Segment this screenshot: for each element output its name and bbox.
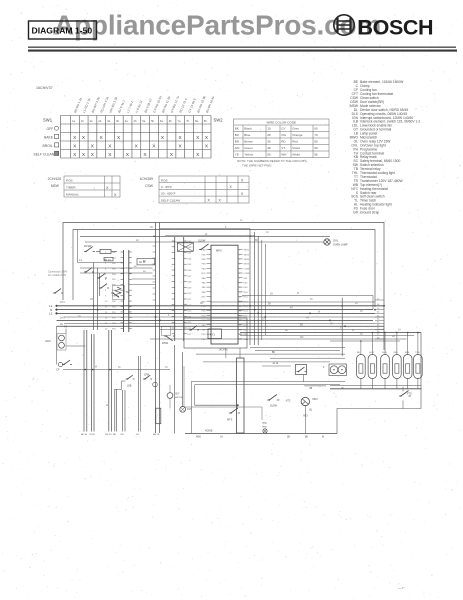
svg-text:4A: 4A — [290, 307, 293, 310]
wire DLM to elements — [66, 345, 85, 347]
svg-text:NOTE: THE NUMBERS REFER TO THE: NOTE: THE NUMBERS REFER TO THE CIRCUITS, — [237, 159, 307, 163]
svg-text:Blue: Blue — [244, 133, 250, 137]
svg-text:9: 9 — [239, 287, 240, 289]
svg-text:2B: 2B — [392, 336, 395, 338]
svg-text:AppliancePartsPros.com: AppliancePartsPros.com — [54, 10, 381, 41]
svg-text:12: 12 — [239, 301, 241, 303]
right border pin ticks — [375, 300, 384, 339]
svg-text:DLSW: DLSW — [84, 244, 92, 248]
svg-text:MPU: MPU — [216, 249, 222, 253]
svg-text:10: 10 — [239, 292, 241, 294]
svg-text:2: 2 — [239, 254, 240, 256]
svg-text:W06: W06 — [196, 437, 201, 439]
svg-text:BAKE: BAKE — [44, 136, 54, 140]
bus mid-right extra 2 — [255, 350, 340, 352]
wire bus row 11 — [150, 338, 407, 340]
svg-text:BK 10: BK 10 — [104, 259, 111, 262]
power terminal L2 and bus — [55, 312, 57, 314]
bake element BE — [91, 334, 93, 432]
svg-text:BU: BU — [235, 133, 239, 137]
svg-text:POS: POS — [66, 179, 73, 183]
svg-text:White: White — [292, 153, 300, 157]
svg-text:70: 70 — [314, 133, 318, 137]
svg-text:NOISE: NOISE — [205, 430, 213, 433]
elements bottom bus — [330, 384, 421, 386]
svg-text:SELF CLEAN: SELF CLEAN — [161, 198, 180, 202]
svg-text:WIRE COLOR CODE: WIRE COLOR CODE — [266, 121, 296, 125]
door lock switch DLSW2 — [267, 399, 269, 401]
svg-text:BK: BK — [268, 304, 272, 306]
wire bus row 10 — [240, 334, 414, 336]
selector contact SW1b — [97, 277, 99, 279]
svg-text:Yellow: Yellow — [244, 153, 254, 157]
svg-text:BU: BU — [360, 333, 364, 335]
element labels — [357, 352, 420, 354]
svg-text:SELF CLEAN: SELF CLEAN — [34, 153, 55, 157]
wire color code table — [234, 119, 330, 158]
bus BK upper — [196, 353, 345, 355]
wire horizontal link A — [80, 267, 153, 269]
selector switch table SW1 — [61, 116, 212, 159]
wire vertical bus right of U1 d — [261, 240, 263, 340]
svg-text:2A: 2A — [262, 317, 265, 320]
wire right vertical x373 — [372, 296, 374, 310]
svg-text:BK: BK — [272, 352, 276, 354]
svg-text:(4CPU): (4CPU) — [219, 348, 228, 352]
display driver column U3 — [174, 237, 176, 341]
latch drive LDB — [115, 389, 122, 391]
fuse F1 — [100, 250, 111, 254]
wire mid vertical 4 — [194, 385, 196, 406]
bus box top extension — [262, 365, 291, 367]
svg-text:OVL: OVL — [333, 239, 339, 243]
rotated column headers — [73, 95, 215, 113]
svg-text:OSC: OSC — [201, 297, 206, 299]
svg-text:13: 13 — [239, 306, 241, 308]
filter block FB — [137, 259, 155, 265]
svg-text:RD: RD — [113, 434, 117, 436]
wire feed bus — [78, 262, 124, 264]
svg-text:2A: 2A — [136, 239, 139, 242]
svg-text:11: 11 — [239, 297, 241, 299]
svg-text:THE WIRE NET-PWG: THE WIRE NET-PWG — [242, 164, 272, 168]
U1 left pins — [207, 250, 212, 339]
svg-text:Red: Red — [292, 140, 298, 144]
svg-text:60: 60 — [314, 127, 318, 131]
surface element E5 — [403, 355, 412, 379]
surface element E6 — [414, 355, 423, 379]
svg-text:2B: 2B — [287, 437, 290, 439]
svg-text:18: 18 — [239, 330, 241, 332]
svg-text:GY: GY — [330, 324, 334, 326]
X contact marks — [73, 135, 209, 158]
svg-text:4: 4 — [239, 264, 240, 266]
svg-text:1B: 1B — [150, 227, 153, 229]
mid box outline — [184, 366, 262, 420]
svg-text:FTS: FTS — [407, 393, 412, 396]
element 4 short — [114, 389, 116, 432]
wire bus above U1 second — [165, 235, 255, 237]
svg-text:16CH/V37: 16CH/V37 — [36, 86, 53, 90]
svg-text:Black: Black — [244, 127, 252, 131]
svg-text:NTC: NTC — [286, 400, 291, 402]
svg-text:6: 6 — [239, 273, 240, 275]
microcontroller U1 — [211, 245, 238, 344]
svg-text:SW1: SW1 — [43, 118, 53, 123]
svg-text:2B: 2B — [309, 388, 312, 390]
Bosch logo symbol — [334, 15, 354, 35]
svg-text:95: 95 — [314, 153, 318, 157]
relay RY1 contact — [189, 329, 191, 331]
keyboard switch KEY — [167, 393, 173, 399]
svg-text:BK: BK — [255, 240, 259, 242]
wire bus row 4 — [64, 316, 384, 318]
right border vertical — [420, 333, 422, 388]
svg-text:PE: PE — [60, 324, 64, 326]
svg-text:BROIL: BROIL — [43, 144, 53, 148]
svg-text:VDD: VDD — [201, 273, 206, 275]
svg-text:OV2: OV2 — [187, 408, 192, 411]
svg-text:CSW: CSW — [145, 184, 154, 188]
schematic outer border — [63, 223, 384, 351]
contact number row — [72, 119, 207, 123]
wire bus row 6 — [64, 322, 375, 324]
svg-text:C: C — [323, 366, 325, 369]
svg-text:20 - 650°F: 20 - 650°F — [161, 192, 176, 196]
svg-text:7: 7 — [239, 278, 240, 280]
svg-text:SEG3: SEG3 — [244, 259, 250, 261]
svg-text:BN: BN — [235, 140, 239, 144]
svg-text:90: 90 — [314, 146, 318, 150]
svg-text:14: 14 — [239, 311, 241, 313]
svg-text:TH2: TH2 — [262, 423, 267, 425]
header rule lower — [28, 50, 457, 52]
aux switch near note — [53, 292, 55, 294]
motor thermal switch MTS — [229, 412, 231, 414]
svg-text:OG: OG — [281, 133, 286, 137]
cooling fan motor CFM — [143, 378, 145, 380]
svg-text:Ground strap: Ground strap — [360, 211, 379, 215]
fan motor FM — [329, 364, 347, 376]
selector contact SW1d — [111, 292, 113, 294]
selector contact SW1a — [84, 271, 86, 273]
svg-text:BK 20: BK 20 — [106, 434, 113, 436]
surface element E2 — [368, 355, 377, 379]
power terminal L1 and bus — [55, 305, 57, 307]
svg-text:MANUAL: MANUAL — [66, 193, 79, 197]
wire riser to DLSW — [77, 230, 79, 263]
right top link bus — [330, 340, 400, 342]
svg-text:0 - 65°F: 0 - 65°F — [161, 185, 172, 189]
svg-text:CF: CF — [56, 368, 60, 372]
svg-text:RY1: RY1 — [210, 334, 215, 337]
wire stub to pair — [132, 278, 156, 280]
svg-text:3: 3 — [239, 259, 240, 261]
wire vertical bus right of U1 c — [257, 236, 259, 345]
element 5 short — [122, 390, 124, 432]
wire mid vertical 1 — [174, 345, 176, 434]
schematic inner border — [73, 230, 375, 308]
oven lamp OVL — [324, 239, 330, 245]
door latch switch DLSW — [84, 251, 86, 253]
svg-text:30: 30 — [267, 140, 271, 144]
power terminal N and bus — [55, 309, 57, 311]
svg-text:YE: YE — [235, 153, 239, 157]
svg-text:BU: BU — [143, 271, 146, 273]
svg-text:PE: PE — [64, 327, 68, 329]
svg-text:20: 20 — [267, 133, 271, 137]
wire bus row 5 — [57, 319, 374, 321]
svg-text:W 30: W 30 — [90, 434, 96, 436]
wire vertical risers left — [93, 263, 95, 331]
svg-text:GY: GY — [136, 434, 140, 436]
svg-text:COM2: COM2 — [244, 273, 251, 275]
svg-text:SEG4: SEG4 — [244, 264, 250, 266]
svg-text:SLSW: SLSW — [198, 239, 206, 243]
element TE tall — [237, 358, 245, 433]
svg-text:OFF: OFF — [47, 127, 54, 131]
wire drop from Q1 — [304, 406, 306, 434]
element bottom stubs — [361, 379, 418, 389]
wire horizontal link B — [80, 272, 153, 274]
svg-text:BK: BK — [305, 437, 309, 439]
svg-text:80: 80 — [314, 140, 318, 144]
wire drop from K2 — [303, 375, 305, 382]
svg-text:50: 50 — [267, 153, 271, 157]
svg-text:BN: BN — [300, 324, 304, 326]
svg-text:TOB: TOB — [415, 352, 420, 354]
bus second — [270, 357, 345, 359]
wire vertical bus right of U1 a — [249, 229, 251, 345]
svg-text:for models 240V: for models 240V — [48, 274, 67, 277]
svg-text:MSW: MSW — [51, 184, 60, 188]
svg-text:2A: 2A — [355, 302, 358, 305]
bus mid-right extra 3 — [203, 361, 330, 363]
svg-text:Orange: Orange — [292, 133, 303, 137]
svg-text:KEY: KEY — [175, 393, 180, 396]
svg-text:W30: W30 — [262, 427, 267, 429]
oven lamp 2 — [180, 406, 186, 412]
svg-text:SEG1: SEG1 — [244, 250, 250, 252]
title box DIAGRAM 1-50 — [29, 21, 97, 39]
header rule upper — [28, 46, 456, 48]
interlock relay K1 box — [177, 243, 193, 252]
thermostat switch FTS — [399, 395, 401, 397]
svg-text:8: 8 — [239, 283, 240, 285]
svg-text:BK: BK — [285, 330, 289, 332]
svg-text:1A: 1A — [220, 436, 223, 439]
svg-text:10: 10 — [267, 127, 271, 131]
mid bus 2 — [195, 384, 340, 386]
wire vertical x138.6 — [138, 356, 140, 432]
svg-text:RD: RD — [281, 140, 286, 144]
wire vertical bus right of U1 e — [264, 244, 266, 335]
right riser to relay section — [341, 298, 343, 356]
cooling fan switch CF — [62, 364, 64, 366]
svg-text:GR: GR — [353, 211, 359, 215]
svg-text:SW2: SW2 — [214, 118, 224, 123]
surface element E1 — [357, 355, 366, 379]
svg-text:L2: L2 — [49, 312, 53, 316]
wire left edge riser — [56, 326, 58, 364]
surface element E3 — [381, 355, 390, 379]
svg-text:BN: BN — [143, 261, 147, 263]
latch switch SLSW — [199, 249, 201, 251]
row icons — [55, 126, 59, 130]
svg-text:Violet: Violet — [292, 146, 300, 150]
element 3 riser — [108, 330, 110, 432]
triac Q1 — [301, 397, 309, 405]
svg-text:WH: WH — [281, 153, 286, 157]
svg-text:5: 5 — [239, 268, 240, 270]
svg-text:NT3: NT3 — [303, 416, 308, 418]
bus below motors — [304, 385, 326, 387]
stub TE top — [225, 348, 227, 358]
svg-text:SWITCH: SWITCH — [175, 397, 184, 399]
svg-text:WBL: WBL — [405, 352, 411, 354]
element drop wires — [360, 341, 362, 355]
elements bottom bus dark — [330, 388, 422, 390]
U1 right pins — [238, 250, 243, 339]
svg-text:SEG2: SEG2 — [244, 254, 250, 256]
wire mid vertical 3 — [190, 382, 192, 434]
driver IC U2 — [123, 250, 125, 332]
door lock motor DLM — [59, 335, 65, 341]
svg-text:1B: 1B — [270, 294, 273, 296]
step outline bottom right — [337, 387, 421, 434]
wire bus upper right 2 — [211, 301, 375, 303]
svg-text:Brown: Brown — [244, 140, 253, 144]
wire mid vertical 2 — [182, 352, 184, 407]
mid bus 1 — [191, 381, 345, 383]
svg-text:40: 40 — [267, 146, 271, 150]
svg-text:LDB: LDB — [127, 386, 132, 388]
mid bus 3 — [195, 404, 238, 406]
svg-text:1a 1b: 1a 1b — [272, 363, 278, 365]
wire vertical bus right of U1 b — [254, 232, 256, 345]
door switch DSW — [164, 335, 166, 337]
svg-text:— r·: — r· — [398, 586, 405, 590]
thermal cutout TCO — [104, 258, 113, 261]
wire number labels — [60, 220, 401, 369]
wire bus upper right 1 — [242, 295, 373, 297]
svg-text:1: 1 — [239, 250, 240, 252]
wire top bus 2 to oven lamp — [85, 241, 324, 243]
wire bus row 9 — [240, 332, 421, 334]
broil element BO — [83, 330, 85, 432]
relay RY1 coil — [208, 329, 222, 339]
svg-text:OVEN LAMP: OVEN LAMP — [333, 243, 348, 246]
wire bus row 7 — [57, 325, 385, 327]
bus mid-right extra 1 — [250, 347, 345, 349]
svg-text:BK 30: BK 30 — [81, 434, 88, 436]
wire bus row 8 — [160, 328, 384, 330]
relay box RY1 — [184, 318, 247, 348]
svg-text:COM1: COM1 — [244, 268, 251, 270]
svg-text:DLM: DLM — [45, 340, 50, 343]
junction dots on buses — [93, 305, 95, 307]
surface element E4 — [393, 355, 402, 379]
svg-text:4CH/269: 4CH/269 — [140, 177, 153, 181]
wire top bus 1 — [80, 235, 330, 237]
svg-text:BN 16: BN 16 — [153, 434, 160, 436]
svg-text:Grey: Grey — [292, 127, 299, 131]
svg-text:CFM: CFM — [144, 375, 149, 377]
svg-text:VT: VT — [281, 146, 285, 150]
svg-text:1A: 1A — [398, 329, 401, 332]
element small rect — [156, 408, 161, 424]
element feed bus lower — [63, 369, 170, 371]
svg-text:GY: GY — [281, 127, 285, 131]
svg-text:2CH/426: 2CH/426 — [48, 177, 61, 181]
svg-text:POS: POS — [161, 178, 168, 182]
bottom middle bus — [185, 433, 337, 435]
svg-text:GN: GN — [235, 146, 240, 150]
svg-text:2W2: 2W2 — [60, 318, 65, 320]
svg-text:WBL: WBL — [394, 352, 400, 354]
svg-text:DIAGRAM 1-50: DIAGRAM 1-50 — [32, 26, 93, 36]
wire bus above U1 — [160, 228, 250, 230]
relay contact K2 boxed — [296, 365, 307, 375]
wire vertical pair center-left — [155, 223, 157, 434]
svg-text:4B: 4B — [306, 318, 309, 320]
svg-text:DSW: DSW — [162, 341, 169, 345]
svg-text:MOC: MOC — [313, 399, 319, 401]
svg-text:Green: Green — [244, 146, 253, 150]
svg-text:DLSW: DLSW — [270, 405, 278, 408]
legend abbreviation list — [350, 80, 421, 214]
svg-text:MTS: MTS — [227, 419, 233, 422]
transformer TR primary — [115, 287, 121, 297]
selector contact SW1c — [99, 287, 101, 289]
svg-text:2W1: 2W1 — [60, 302, 65, 304]
